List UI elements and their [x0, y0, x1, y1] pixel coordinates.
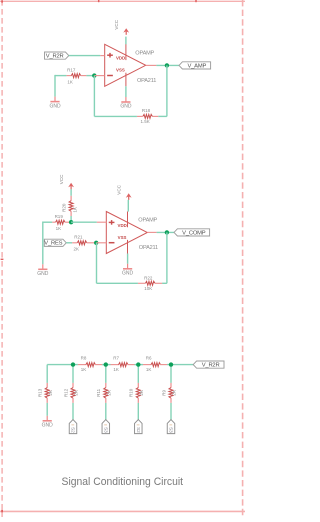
U2 value OPA211	[139, 245, 158, 251]
resistor R12	[71, 383, 75, 403]
net label V_R2R (input)	[45, 52, 69, 60]
U2 output pin stub	[147, 231, 156, 233]
svg-text:1K: 1K	[56, 226, 62, 231]
R12 designator	[63, 388, 68, 397]
svg-text:2K: 2K	[74, 390, 79, 396]
wire feedback left (R18 to U1 -)	[94, 76, 136, 117]
wire GND corner to R17	[55, 75, 66, 97]
sheet border bottom	[0, 510, 245, 512]
R7 value 1K	[113, 367, 119, 372]
sheet border right	[242, 0, 244, 517]
svg-text:R8: R8	[81, 355, 87, 360]
net label V_COMP	[174, 229, 210, 237]
wire U1 output to V_AMP	[156, 64, 179, 66]
svg-text:VSS: VSS	[118, 235, 127, 240]
U1 output pin stub	[146, 64, 157, 66]
U1 designator OPAMP	[135, 51, 154, 57]
resistor R20	[69, 196, 73, 216]
U1 pin - (pin 2) stub	[94, 75, 104, 77]
R22 designator	[144, 275, 153, 280]
op-amp U1 (top)	[105, 44, 146, 86]
junction node ladder tap 4	[169, 362, 173, 366]
ground (left branch)	[37, 264, 49, 277]
wire left branch corner to R19	[43, 222, 53, 265]
svg-text:GND: GND	[122, 271, 134, 277]
power flag VCC (top op-amp)	[114, 19, 129, 35]
R10 designator	[129, 388, 134, 397]
svg-text:R9: R9	[161, 389, 166, 395]
svg-text:1K: 1K	[81, 367, 87, 372]
svg-text:VCC: VCC	[59, 174, 64, 184]
svg-text:R20: R20	[62, 203, 67, 212]
U2 designator OPAMP	[138, 218, 157, 224]
svg-text:S2: S2	[71, 427, 76, 433]
R10 value 2K	[139, 390, 144, 396]
wire R9 to flag	[170, 403, 172, 420]
svg-text:R19: R19	[55, 214, 64, 219]
svg-text:2K: 2K	[48, 390, 53, 396]
svg-text:2K: 2K	[73, 246, 79, 251]
svg-text:R10: R10	[129, 388, 134, 397]
resistor R22	[138, 281, 162, 285]
power flag VCC (R20 top)	[59, 174, 74, 190]
svg-text:R12: R12	[63, 388, 68, 397]
junction node U1 inverting input	[92, 73, 96, 77]
net port flag S2	[69, 420, 77, 434]
R13 designator	[38, 388, 43, 397]
svg-text:VCC: VCC	[117, 184, 122, 194]
svg-text:S3: S3	[169, 427, 174, 433]
R17 designator	[67, 67, 76, 72]
svg-text:V_R2R: V_R2R	[46, 54, 64, 60]
net port flag S2	[135, 420, 143, 434]
wire tap down to R12	[72, 365, 74, 383]
ladder bus wire V_R2R row	[47, 364, 193, 366]
svg-text:S3: S3	[103, 427, 108, 433]
wire R12 to flag	[72, 403, 74, 420]
R12 value 2K	[74, 390, 79, 396]
wire U1 VSS to ground	[125, 86, 127, 97]
ground (U2 VSS)	[122, 264, 134, 277]
wire VCC to U1 VDD	[125, 37, 127, 45]
border tick marks	[1, 0, 196, 513]
svg-text:2K: 2K	[106, 390, 111, 396]
svg-text:GND: GND	[120, 104, 132, 110]
wire feedback right drop (U2)	[162, 232, 167, 283]
net port flag S3	[167, 420, 175, 434]
wire V_R2R to U1 + input	[69, 55, 101, 57]
R9 value 2K	[172, 390, 177, 396]
resistor R18	[137, 114, 158, 118]
svg-text:VSS: VSS	[116, 68, 125, 73]
wire R13 to ground	[46, 403, 48, 416]
svg-text:VDD: VDD	[116, 56, 125, 61]
svg-text:1K: 1K	[146, 367, 152, 372]
R20 value 1K	[72, 207, 77, 213]
wire VCC to R20	[70, 189, 72, 196]
net label V_AMP	[179, 62, 211, 70]
svg-text:VCC: VCC	[114, 19, 119, 29]
R18 value 1.5K	[140, 119, 149, 124]
resistor R19	[52, 220, 71, 224]
svg-text:2K: 2K	[172, 390, 177, 396]
R13 value 2K	[48, 390, 53, 396]
R18 designator	[142, 108, 151, 113]
ground (ladder)	[42, 416, 54, 429]
svg-text:R21: R21	[74, 234, 83, 239]
svg-text:1K: 1K	[67, 80, 73, 85]
svg-text:1K: 1K	[113, 367, 119, 372]
net label V_R2R (ladder output)	[193, 361, 224, 369]
net label V_RES	[44, 239, 66, 247]
wire tap down to R10	[137, 365, 139, 383]
svg-text:Signal Conditioning Circuit: Signal Conditioning Circuit	[62, 476, 184, 488]
junction node ladder tap 3	[136, 362, 140, 366]
wire tap down to R9	[170, 365, 172, 383]
svg-text:VDD: VDD	[118, 223, 127, 228]
wire VCC to U2 VDD	[127, 200, 129, 212]
svg-text:OPA211: OPA211	[137, 78, 156, 84]
wire R10 to flag	[137, 403, 139, 420]
junction node U2 output	[165, 230, 169, 234]
U2 pin - (pin 2) stub	[96, 242, 106, 244]
power flag VCC (U2 VDD)	[117, 184, 132, 200]
U2 pin + (pin 3) stub	[97, 221, 107, 223]
wire tap down to R11	[105, 365, 107, 383]
sheet border top	[0, 0, 245, 2]
svg-text:GND: GND	[49, 103, 61, 109]
R21 designator	[74, 234, 83, 239]
junction node U1 output	[165, 63, 169, 67]
svg-text:R11: R11	[96, 388, 101, 396]
resistor R9	[169, 383, 173, 403]
svg-text:S2: S2	[136, 427, 141, 433]
svg-text:R22: R22	[144, 275, 153, 280]
resistor R17	[66, 74, 86, 78]
resistor R10	[136, 383, 140, 403]
svg-text:V_AMP: V_AMP	[187, 63, 206, 69]
wire U2 VSS to ground	[127, 254, 129, 264]
wire R11 to flag	[105, 403, 107, 420]
R21 value 2K	[73, 246, 79, 251]
svg-text:1.5K: 1.5K	[140, 119, 149, 124]
svg-text:V_COMP: V_COMP	[182, 230, 206, 236]
svg-text:GND: GND	[42, 423, 54, 429]
R19 designator	[55, 214, 64, 219]
U1 pin + (pin 3) stub	[100, 55, 104, 57]
svg-text:R7: R7	[113, 355, 119, 360]
svg-text:GND: GND	[37, 271, 49, 277]
svg-text:R6: R6	[146, 355, 152, 360]
wire tap down to R13	[46, 365, 48, 383]
R17 value 1K	[67, 80, 73, 85]
resistor R8	[78, 363, 102, 367]
R6 designator	[146, 355, 152, 360]
svg-text:R18: R18	[142, 108, 151, 113]
wire R20 to node	[70, 216, 72, 222]
R20 designator	[62, 203, 67, 212]
R22 value 10K	[144, 286, 152, 291]
wire U2 output to V_COMP	[157, 231, 174, 233]
R9 designator	[161, 389, 166, 395]
svg-text:R17: R17	[67, 67, 76, 72]
title text	[62, 476, 184, 488]
ground (U1 VSS)	[120, 97, 132, 110]
R7 designator	[113, 355, 119, 360]
svg-text:R13: R13	[38, 388, 43, 397]
resistor R11	[104, 383, 108, 403]
svg-text:V_R2R: V_R2R	[202, 363, 220, 369]
wire V_RES to R21	[66, 242, 72, 244]
junction node ladder tap 2	[104, 362, 108, 366]
R8 designator	[81, 355, 87, 360]
resistor R6	[143, 363, 167, 367]
ground (below R17)	[49, 97, 61, 110]
wire feedback left (R22 to U2 -)	[97, 243, 138, 283]
wire R17 to inverting node	[86, 75, 94, 77]
svg-text:2K: 2K	[139, 390, 144, 396]
svg-text:OPAMP: OPAMP	[135, 51, 154, 57]
wire node to U2 + input	[71, 221, 97, 223]
resistor R7	[111, 363, 135, 367]
net port flag S3	[102, 420, 110, 434]
junction node R19/R20	[69, 220, 73, 224]
R6 value 1K	[146, 367, 152, 372]
junction node ladder tap 1	[71, 362, 75, 366]
U1 value OPA211	[137, 78, 156, 84]
svg-text:OPA211: OPA211	[139, 245, 158, 251]
svg-text:10K: 10K	[144, 286, 152, 291]
wire feedback right drop (U1)	[158, 65, 167, 116]
R19 value 1K	[56, 226, 62, 231]
R8 value 1K	[81, 367, 87, 372]
svg-text:1K: 1K	[72, 207, 77, 213]
svg-text:V_RES: V_RES	[44, 241, 62, 247]
resistor R13	[45, 383, 49, 403]
op-amp U2 (middle)	[106, 212, 147, 254]
junction node U2 inverting input	[94, 241, 98, 245]
R11 value 2K	[106, 390, 111, 396]
R11 designator	[96, 388, 101, 396]
sheet border left	[1, 0, 3, 517]
resistor R21	[72, 241, 94, 245]
svg-text:OPAMP: OPAMP	[138, 218, 157, 224]
